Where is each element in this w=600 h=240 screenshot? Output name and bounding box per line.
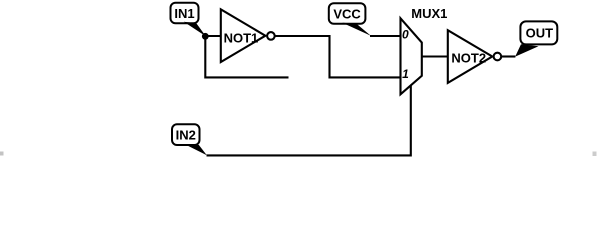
svg-text:MUX1: MUX1 [411,6,447,21]
inverter NOT2 triangle [448,30,493,83]
svg-text:NOT2: NOT2 [451,51,486,66]
wire VCC to MUX1 input 0 [370,35,401,37]
svg-text:IN1: IN1 [174,6,194,21]
flag OUT box [520,21,557,44]
flag IN2 box [172,124,200,145]
NOT2 output bubble [494,53,502,61]
svg-text:VCC: VCC [333,6,361,21]
flag IN1 pointer [184,22,206,36]
flag OUT pointer [515,44,538,56]
wire IN2 to MUX1 select [207,84,411,155]
flag IN1 box [171,3,199,24]
faint grid speck bottom-left [0,152,4,156]
wire NOT2 output to OUT tag [502,55,516,57]
wire MUX1 output to NOT2 input [422,55,448,57]
junction dot at IN1 node [202,33,209,40]
flag IN2 pointer [184,144,207,155]
flag VCC box [329,3,366,24]
wire stub from junction down and right (dangling) [205,35,288,77]
wire NOT1 output to MUX1 input 1 [276,36,401,77]
wire IN1 junction to NOT1 input [204,35,221,37]
svg-text:OUT: OUT [526,26,554,41]
faint grid speck bottom-right [593,152,597,157]
flag VCC pointer [342,23,371,36]
svg-text:0: 0 [402,27,409,41]
NOT1 output bubble [267,32,275,40]
op-amp-style inverter NOT1 triangle [221,9,266,62]
multiplexer MUX1 body [401,18,422,94]
svg-text:1: 1 [402,67,409,81]
svg-text:NOT1: NOT1 [224,30,259,45]
svg-text:IN2: IN2 [176,127,196,142]
